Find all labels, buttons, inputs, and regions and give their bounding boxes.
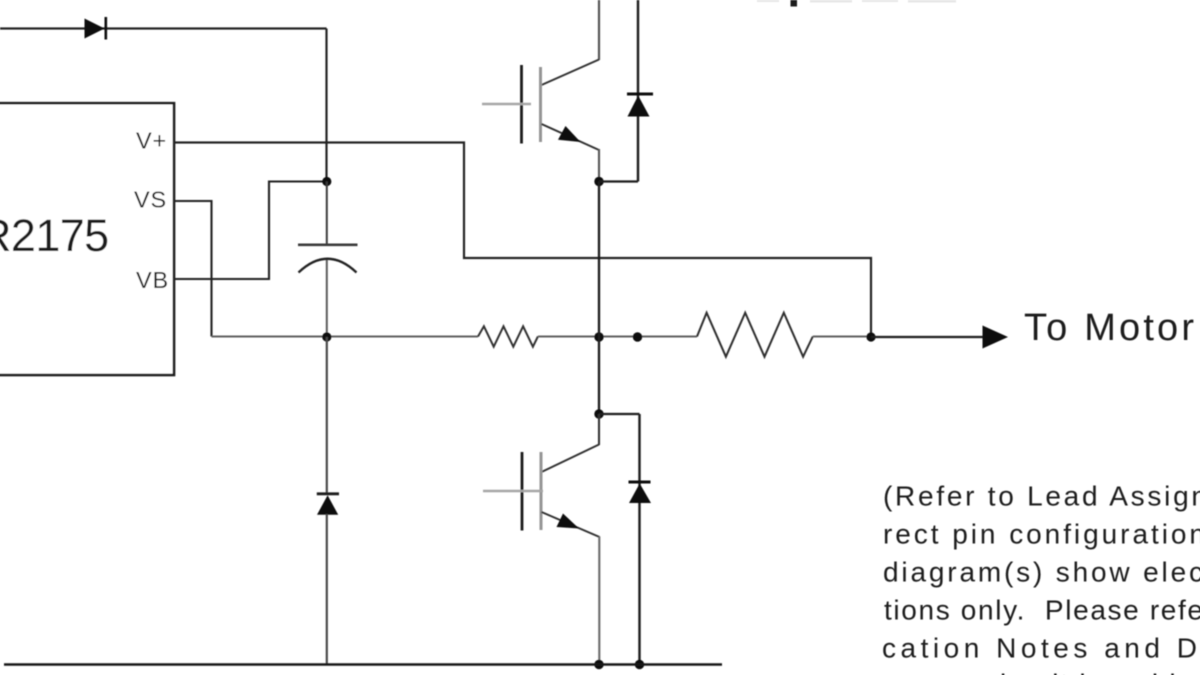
junction: VB / bootstrap node <box>322 177 331 186</box>
diode D3 (left clamp diode) <box>317 494 339 515</box>
junction: D4 at bottom bus <box>635 660 644 669</box>
op-amp U1: IR2175 IC body <box>0 103 174 375</box>
text: disclaimer block <box>882 481 1200 680</box>
capacitor C1 (bootstrap cap) <box>298 182 358 337</box>
wire: bottom bus <box>4 663 722 666</box>
wire: phase column between IGBTs <box>598 182 600 415</box>
diode D4 (lower freewheel diode) <box>629 414 652 665</box>
wire: V+ pin to motor node <box>174 143 871 337</box>
wire: collector node to diode D4 <box>599 413 640 415</box>
wire: sense rail between R2 and motor node <box>813 335 871 337</box>
svg-text:To Motor: To Motor <box>1024 307 1194 349</box>
wire: emitter node to diode D2 <box>599 180 638 182</box>
svg-text:proper circuit board la: proper circuit board la <box>883 669 1193 676</box>
wire: VS pin down to sense rail <box>174 201 212 337</box>
resistor R1 <box>478 326 538 346</box>
diode D2 (upper freewheel diode) <box>627 0 653 182</box>
junction: cap bottom / VS node <box>322 332 331 341</box>
wire: left shunt branch down <box>326 337 328 493</box>
svg-text:V+: V+ <box>136 128 167 154</box>
wire: sense rail between R1 and R2 <box>538 335 697 337</box>
wire: VB pin up to bootstrap node <box>174 182 327 280</box>
junction: motor output node <box>866 332 875 341</box>
resistor R2 <box>697 313 813 357</box>
svg-text:tions only. Please refe: tions only. Please refe <box>884 595 1200 626</box>
junction: upper emitter node <box>594 177 603 186</box>
junction: lower collector node <box>594 409 603 418</box>
svg-text:VB: VB <box>136 267 169 293</box>
wire: bootstrap rail drop to VB node <box>325 29 327 182</box>
wire: VS sense rail (left of R1) <box>212 335 479 337</box>
diode D1 (bootstrap diode) <box>85 17 106 40</box>
wire: bootstrap supply top rail <box>0 27 327 29</box>
svg-text:(Refer to Lead Assign: (Refer to Lead Assign <box>883 481 1200 512</box>
junction: stray node right of phase column <box>633 332 642 341</box>
junction: phase column on sense rail <box>594 332 603 341</box>
svg-text:rect pin configuration: rect pin configuration <box>883 519 1200 550</box>
junction: Q2 emitter at bottom bus <box>594 660 603 669</box>
svg-text:VS: VS <box>134 187 167 213</box>
wire: output arrow to motor <box>871 326 1008 349</box>
transistor Q1 (upper IGBT) <box>482 0 599 182</box>
svg-text:R2175: R2175 <box>0 210 109 261</box>
wire: left branch to bottom bus <box>326 514 328 665</box>
transistor Q2 (lower IGBT) <box>483 414 600 665</box>
top caption remnants (clipped text bottoms) <box>757 0 956 7</box>
svg-text:diagram(s) show elec: diagram(s) show elec <box>883 557 1200 588</box>
